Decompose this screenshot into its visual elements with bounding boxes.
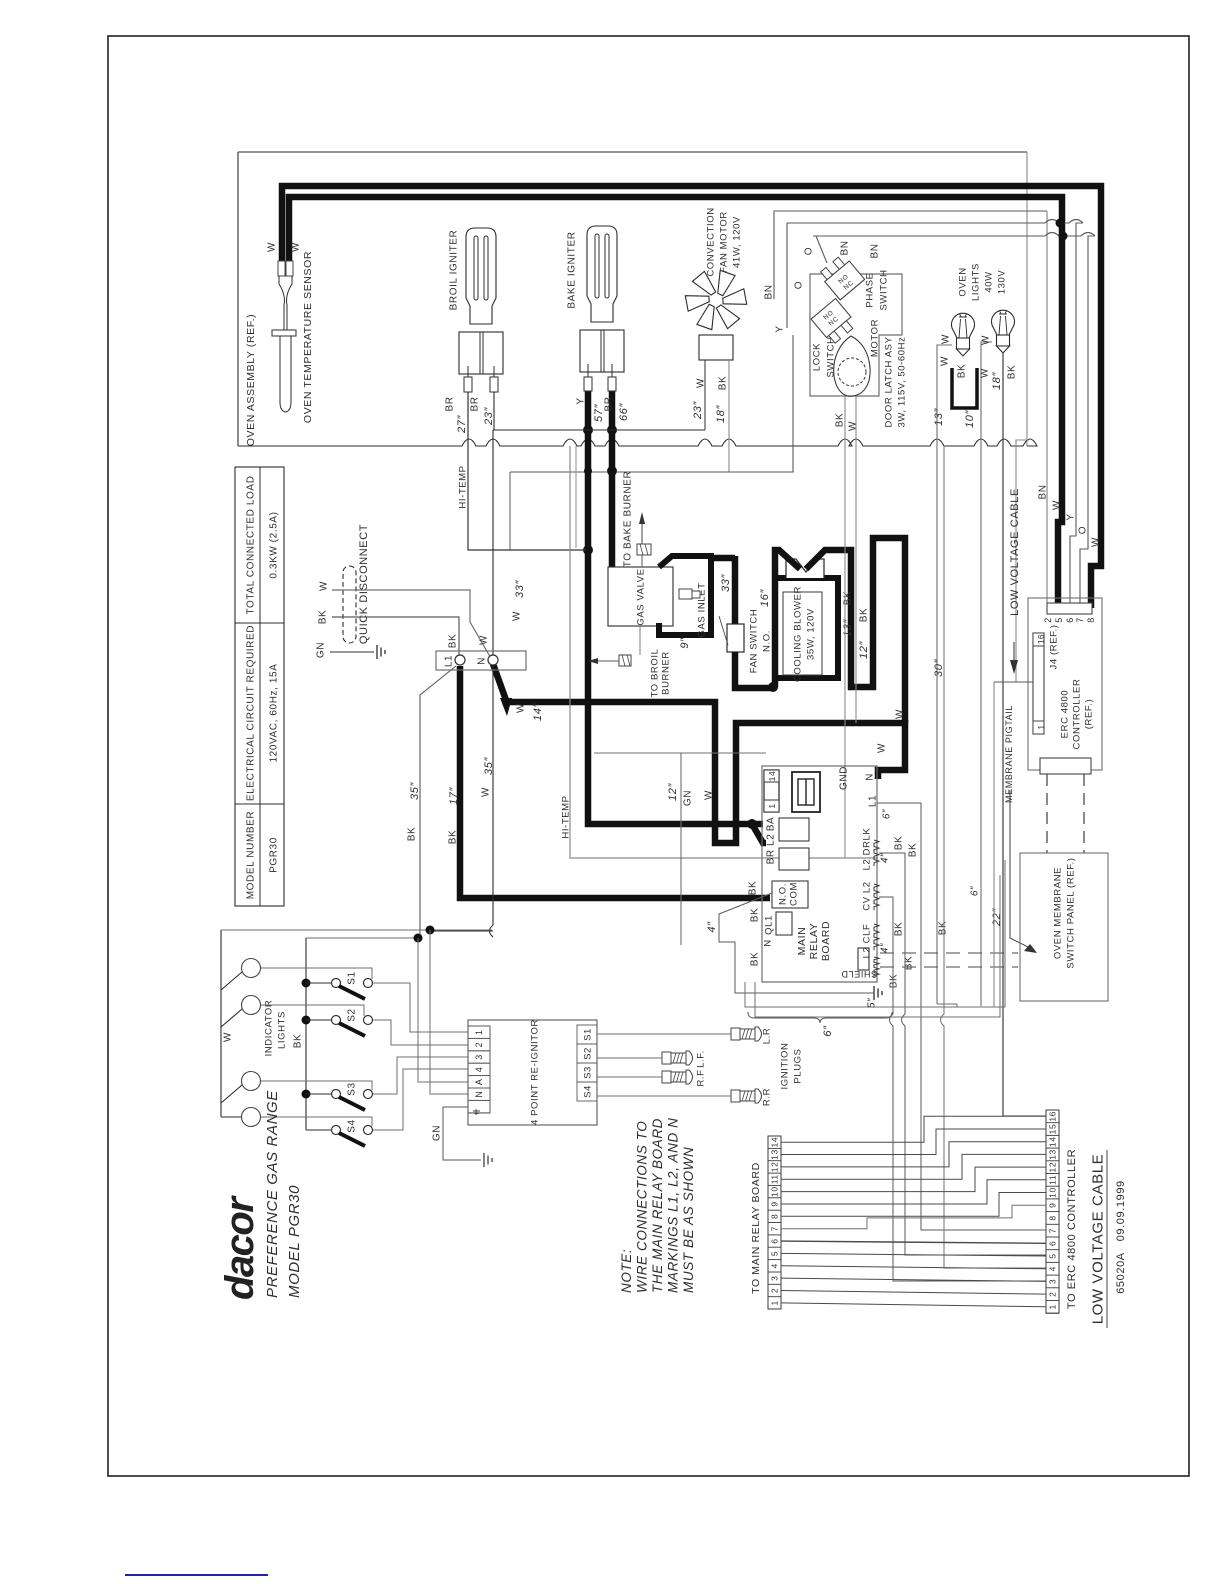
- svg-text:13″: 13″: [842, 619, 854, 637]
- svg-text:41W, 120V: 41W, 120V: [731, 216, 742, 268]
- phase switch: [818, 253, 864, 300]
- svg-text:L1: L1: [444, 655, 455, 667]
- rail y=472: [510, 471, 793, 473]
- svg-text:LIGHTS: LIGHTS: [970, 263, 981, 301]
- svg-text:dacor: dacor: [218, 1195, 262, 1300]
- svg-text:3: 3: [770, 1275, 780, 1280]
- svg-text:W: W: [512, 611, 523, 621]
- BR L2 terminal: [779, 848, 809, 870]
- svg-text:3W, 115V, 50-60Hz: 3W, 115V, 50-60Hz: [896, 336, 907, 427]
- svg-text:30″: 30″: [933, 659, 945, 677]
- svg-text:6″: 6″: [970, 886, 981, 896]
- svg-text:12″: 12″: [667, 783, 679, 801]
- svg-text:BR: BR: [445, 396, 456, 411]
- svg-text:FAN SWITCH: FAN SWITCH: [748, 609, 759, 674]
- svg-text:23″: 23″: [483, 407, 495, 426]
- svg-text:IGNITION: IGNITION: [779, 1042, 790, 1089]
- svg-text:CONTROLLER: CONTROLLER: [1071, 679, 1082, 750]
- svg-text:COM: COM: [788, 882, 799, 906]
- svg-text:7: 7: [770, 1226, 780, 1231]
- oven membrane switch panel: [1020, 853, 1108, 1001]
- ignition plug R.R: [731, 1090, 740, 1102]
- svg-text:N: N: [865, 773, 876, 781]
- svg-text:66″: 66″: [618, 403, 630, 421]
- ERC bottom connector: [1040, 758, 1091, 774]
- wire thick BR bake igniter lead to gas valve: [609, 390, 616, 567]
- svg-text:W: W: [481, 787, 492, 797]
- svg-text:BK: BK: [859, 608, 870, 623]
- switch S1: [332, 979, 341, 988]
- svg-text:5: 5: [1054, 617, 1064, 623]
- low voltage cable wires: [781, 1116, 1046, 1142]
- 4 point re-ignitor box: [468, 1020, 597, 1125]
- bulb 1: [952, 313, 975, 338]
- svg-text:BN: BN: [840, 240, 851, 255]
- svg-text:HI-TEMP: HI-TEMP: [560, 795, 571, 838]
- J4 connector: [1033, 633, 1044, 734]
- svg-text:4″: 4″: [880, 853, 891, 863]
- wire thick BR-L2 diagonal stub: [752, 824, 766, 843]
- broil igniter: [466, 228, 496, 324]
- svg-text:N: N: [477, 657, 488, 665]
- svg-text:7: 7: [1048, 1228, 1058, 1233]
- thin rail y=753: [594, 752, 766, 754]
- BK bus: [305, 938, 307, 1130]
- svg-text:2: 2: [474, 1042, 484, 1048]
- broil 27in wire: [468, 392, 586, 550]
- svg-text:18″: 18″: [991, 372, 1003, 390]
- svg-text:PLUGS: PLUGS: [792, 1048, 803, 1083]
- svg-text:PREFERENCE GAS RANGE: PREFERENCE GAS RANGE: [264, 1090, 281, 1298]
- svg-text:3: 3: [1048, 1279, 1058, 1284]
- BA terminal: [779, 818, 809, 841]
- svg-text:15: 15: [1048, 1124, 1058, 1135]
- GN wire + earth: [443, 1107, 481, 1160]
- W bus: [221, 930, 242, 1117]
- svg-text:BK: BK: [889, 974, 900, 989]
- svg-text:FAN MOTOR: FAN MOTOR: [718, 211, 729, 273]
- svg-text:6: 6: [770, 1238, 780, 1243]
- svg-text:L.F.: L.F.: [695, 1050, 706, 1068]
- lock switch: [811, 299, 857, 346]
- svg-text:1: 1: [1037, 724, 1046, 729]
- svg-text:BK: BK: [407, 827, 418, 842]
- svg-text:QL1: QL1: [763, 915, 774, 935]
- svg-text:S1: S1: [347, 971, 358, 984]
- svg-text:13: 13: [770, 1149, 780, 1160]
- svg-text:14: 14: [767, 771, 777, 782]
- junction dots on thick verticals: [583, 425, 593, 435]
- svg-text:TO BROIL: TO BROIL: [649, 649, 660, 698]
- svg-text:S4: S4: [582, 1085, 593, 1098]
- svg-text:CONVECTION: CONVECTION: [705, 207, 716, 276]
- svg-text:W: W: [516, 703, 527, 713]
- ERC top connector: [1047, 603, 1092, 614]
- svg-text:7: 7: [1075, 617, 1085, 623]
- svg-text:BK: BK: [748, 881, 759, 896]
- cooling blower: [775, 578, 838, 678]
- svg-text:5: 5: [770, 1251, 780, 1256]
- svg-text:WIRE CONNECTIONS TO: WIRE CONNECTIONS TO: [635, 1121, 650, 1293]
- long wire from bulbs: [937, 1004, 957, 1007]
- svg-text:L2 DRLK: L2 DRLK: [861, 828, 872, 871]
- svg-text:BR: BR: [470, 396, 481, 411]
- svg-text:R.F: R.F: [695, 1069, 706, 1086]
- svg-text:BK: BK: [894, 922, 905, 937]
- latch motor: [834, 336, 870, 396]
- svg-text:BN: BN: [870, 243, 881, 258]
- wire thick W outer: oven temp sensor to ERC pin (top loop): [282, 186, 1101, 608]
- svg-text:1: 1: [770, 1300, 780, 1305]
- svg-text:S3: S3: [347, 1082, 358, 1095]
- membrane pigtail dashes: [1046, 774, 1048, 853]
- svg-text:1: 1: [1048, 1304, 1058, 1309]
- svg-text:BN: BN: [1038, 484, 1049, 499]
- svg-text:33″: 33″: [720, 574, 732, 592]
- svg-text:12″: 12″: [858, 641, 870, 659]
- relay component symbol: [792, 772, 820, 812]
- svg-text:N: N: [762, 939, 773, 946]
- svg-text:N: N: [474, 1091, 484, 1098]
- hi-temp gray wire pair: [575, 446, 577, 548]
- svg-text:4: 4: [1048, 1266, 1058, 1271]
- BK 35in wire from L1 to re-ignitor A bus: [420, 666, 456, 938]
- svg-text:N.O.: N.O.: [777, 883, 788, 905]
- svg-text:QUICK DISCONNECT: QUICK DISCONNECT: [358, 524, 370, 644]
- svg-text:L2 CLF: L2 CLF: [861, 924, 872, 959]
- ground symbol: [377, 645, 385, 659]
- relay board 14-pin connector: [764, 770, 779, 812]
- svg-text:TO ERC 4800 CONTROLLER: TO ERC 4800 CONTROLLER: [1066, 1149, 1078, 1309]
- svg-text:16: 16: [1048, 1111, 1058, 1122]
- svg-text:10: 10: [770, 1186, 780, 1197]
- svg-text:S3: S3: [582, 1066, 593, 1079]
- oven temperature sensor: [278, 261, 285, 276]
- relay board right side wires: [877, 803, 1046, 1230]
- svg-text:GN: GN: [316, 642, 327, 658]
- svg-text:0.3KW (2.5A): 0.3KW (2.5A): [269, 511, 280, 578]
- svg-text:W: W: [223, 1032, 234, 1042]
- svg-text:S2: S2: [347, 1008, 358, 1021]
- svg-text:14″: 14″: [532, 703, 544, 721]
- svg-text:W: W: [895, 709, 906, 719]
- svg-text:130V: 130V: [996, 270, 1007, 295]
- svg-text:BK: BK: [318, 610, 329, 625]
- hi-temp wire rail y=430: [493, 429, 705, 431]
- svg-text:22″: 22″: [991, 908, 1003, 927]
- svg-text:9: 9: [770, 1201, 780, 1206]
- ignition plug R.F: [662, 1071, 671, 1083]
- svg-text:OVEN: OVEN: [957, 267, 968, 296]
- svg-text:23″: 23″: [692, 401, 704, 420]
- svg-text:120VAC, 60Hz, 15A: 120VAC, 60Hz, 15A: [269, 664, 280, 763]
- svg-text:2: 2: [770, 1288, 780, 1293]
- svg-text:35″: 35″: [483, 757, 495, 775]
- svg-text:L.R: L.R: [761, 1028, 772, 1045]
- svg-text:10″: 10″: [964, 410, 976, 428]
- svg-text:W: W: [1091, 537, 1102, 547]
- svg-text:BK: BK: [448, 634, 459, 649]
- svg-text:S2: S2: [582, 1047, 593, 1060]
- svg-text:Y: Y: [576, 397, 587, 404]
- svg-text:GAS VALVE: GAS VALVE: [635, 568, 646, 625]
- svg-text:MODEL PGR30: MODEL PGR30: [286, 1185, 303, 1298]
- svg-text:8: 8: [770, 1214, 780, 1219]
- door latch assembly box: [810, 274, 902, 396]
- svg-text:PHASE: PHASE: [864, 272, 875, 307]
- svg-text:ERC 4800: ERC 4800: [1059, 690, 1070, 739]
- gas inlet box (thick border): [659, 556, 711, 635]
- svg-text:O: O: [1078, 526, 1089, 534]
- svg-text:TOTAL CONNECTED LOAD: TOTAL CONNECTED LOAD: [246, 475, 257, 614]
- svg-text:GN: GN: [683, 790, 694, 806]
- svg-text:LOW VOLTAGE CABLE: LOW VOLTAGE CABLE: [1089, 1154, 1106, 1325]
- indicator lamp 3: [242, 1072, 261, 1091]
- svg-text:BURNER: BURNER: [660, 651, 671, 695]
- gas valve igniter electrode symbol: [637, 544, 651, 555]
- svg-text:O: O: [794, 281, 805, 289]
- svg-text:8: 8: [1086, 617, 1096, 623]
- vertical 510: [509, 472, 511, 550]
- bake igniter: [587, 226, 617, 322]
- svg-text:J4 (REF.): J4 (REF.): [1048, 625, 1059, 670]
- svg-text:RELAY: RELAY: [808, 923, 820, 960]
- svg-text:12: 12: [1048, 1162, 1058, 1173]
- switch S4: [332, 1126, 341, 1135]
- svg-text:9: 9: [1048, 1203, 1058, 1208]
- svg-text:33″: 33″: [514, 580, 526, 598]
- svg-text:4: 4: [770, 1263, 780, 1268]
- oven assembly boundary box: [237, 152, 239, 446]
- svg-text:O: O: [804, 247, 815, 255]
- wire thick W inner: oven temp sensor to ERC (top loop): [289, 197, 1062, 608]
- svg-text:SHIELD: SHIELD: [841, 969, 877, 979]
- blower wire BK 13in loop: [806, 538, 905, 723]
- svg-text:THE MAIN RELAY BOARD: THE MAIN RELAY BOARD: [650, 1118, 665, 1293]
- QL1: [776, 912, 792, 935]
- svg-text:L1: L1: [868, 795, 879, 807]
- blower wire W to fan switch junction: [775, 550, 800, 687]
- svg-text:3: 3: [474, 1054, 484, 1060]
- svg-text:4″: 4″: [706, 921, 718, 933]
- ignition plug L.F.: [662, 1052, 671, 1064]
- GN wire from blower area to relay board: [680, 753, 682, 945]
- svg-text:Y: Y: [1066, 513, 1077, 520]
- svg-text:W: W: [877, 743, 888, 753]
- switch S3: [332, 1090, 341, 1099]
- wire NO to N route: [719, 893, 872, 993]
- svg-text:Y: Y: [775, 325, 786, 332]
- bulb wires: [937, 345, 952, 1004]
- svg-text:4″: 4″: [880, 943, 891, 953]
- svg-text:LIGHTS: LIGHTS: [276, 1011, 287, 1049]
- svg-text:2: 2: [1043, 617, 1053, 623]
- svg-text:BK: BK: [957, 364, 968, 379]
- wire corner x1016: [1016, 440, 1029, 682]
- BK wire through disconnect: [332, 617, 459, 655]
- svg-text:R.R: R.R: [761, 1088, 772, 1106]
- svg-text:BOARD: BOARD: [820, 921, 832, 961]
- svg-text:1: 1: [767, 803, 777, 808]
- svg-text:SWITCH PANEL (REF.): SWITCH PANEL (REF.): [1065, 857, 1076, 968]
- wire thick W from N terminal: long route to relay board N: [493, 664, 905, 843]
- svg-text:W: W: [848, 421, 859, 431]
- svg-text:MODEL NUMBER: MODEL NUMBER: [246, 811, 257, 900]
- svg-text:BK: BK: [894, 836, 905, 851]
- svg-text:4: 4: [474, 1067, 484, 1073]
- svg-text:W: W: [704, 790, 715, 800]
- svg-text:N.O.: N.O.: [761, 630, 772, 652]
- svg-text:W: W: [981, 335, 992, 345]
- switch output wires to re-ignitor: [373, 983, 468, 1032]
- svg-text:BK: BK: [750, 952, 761, 967]
- svg-text:BK: BK: [835, 413, 846, 428]
- svg-text:(REF.): (REF.): [1083, 699, 1094, 730]
- svg-text:ELECTRICAL CIRCUIT REQUIRED: ELECTRICAL CIRCUIT REQUIRED: [246, 625, 257, 801]
- svg-text:S1: S1: [582, 1028, 593, 1041]
- svg-text:5: 5: [1048, 1253, 1058, 1258]
- svg-text:16: 16: [1037, 634, 1046, 644]
- svg-text:INDICATOR: INDICATOR: [263, 1000, 274, 1057]
- svg-text:65020A 09.09.1999: 65020A 09.09.1999: [1115, 1180, 1127, 1294]
- svg-text:14: 14: [1048, 1136, 1058, 1147]
- wires below relay board: [745, 860, 1005, 1007]
- svg-text:BK: BK: [843, 591, 854, 606]
- svg-text:PGR30: PGR30: [269, 837, 280, 873]
- bulb 2: [992, 310, 1015, 335]
- svg-text:SWITCH: SWITCH: [878, 269, 889, 310]
- indicator lamp 4: [242, 1108, 261, 1127]
- svg-text:16″: 16″: [759, 589, 771, 607]
- svg-text:13: 13: [1048, 1149, 1058, 1160]
- A and N feed wires: [418, 938, 468, 1082]
- svg-text:W: W: [980, 368, 991, 378]
- quick disconnect: [343, 566, 356, 643]
- N.O. COM terminal box: [772, 881, 808, 908]
- svg-text:12: 12: [770, 1162, 780, 1173]
- to ERC 4800 controller strip: [1046, 1110, 1059, 1313]
- svg-text:4 POINT RE-IGNITOR: 4 POINT RE-IGNITOR: [529, 1019, 540, 1125]
- svg-text:6″: 6″: [882, 809, 893, 819]
- svg-text:BN: BN: [764, 284, 775, 299]
- svg-text:BA: BA: [766, 817, 777, 832]
- svg-text:GND: GND: [839, 766, 850, 790]
- svg-text:COOLING BLOWER: COOLING BLOWER: [792, 586, 803, 682]
- svg-text:LOW VOLTAGE CABLE: LOW VOLTAGE CABLE: [1009, 488, 1021, 616]
- svg-text:W: W: [291, 242, 302, 252]
- blower motor notch symbol: [786, 559, 824, 578]
- svg-text:10: 10: [1048, 1187, 1058, 1198]
- svg-text:BK: BK: [908, 843, 919, 858]
- door latch wires to top rail: [774, 211, 1047, 299]
- to bake burner arrow: [641, 524, 643, 544]
- svg-text:OVEN MEMBRANE: OVEN MEMBRANE: [1052, 867, 1063, 959]
- svg-text:MEMBRANE PIGTAIL: MEMBRANE PIGTAIL: [1004, 705, 1014, 803]
- svg-text:BK: BK: [938, 921, 949, 936]
- to main relay board strip: [768, 1136, 781, 1309]
- to broil burner electrode: [619, 655, 631, 666]
- svg-text:MOTOR: MOTOR: [869, 319, 880, 357]
- svg-text:MUST BE AS SHOWN: MUST BE AS SHOWN: [681, 1147, 696, 1293]
- svg-text:40W: 40W: [983, 271, 994, 292]
- svg-text:18″: 18″: [715, 405, 727, 423]
- terminal block L1 / N: [436, 651, 526, 670]
- svg-text:BR: BR: [604, 396, 615, 411]
- svg-text:11: 11: [1048, 1175, 1058, 1185]
- svg-text:MARKINGS L1, L2, AND N: MARKINGS L1, L2, AND N: [666, 1118, 681, 1294]
- svg-text:35W, 120V: 35W, 120V: [805, 608, 816, 660]
- svg-text:W: W: [940, 356, 951, 366]
- svg-text:35″: 35″: [409, 782, 421, 800]
- svg-text:OVEN ASSEMBLY (REF.): OVEN ASSEMBLY (REF.): [245, 314, 257, 446]
- svg-text:W: W: [267, 242, 278, 252]
- broil 23in / W33 wire: [431, 392, 494, 937]
- svg-text:17″: 17″: [448, 787, 460, 805]
- W wire through disconnect: [332, 590, 492, 660]
- wire thick Y bake igniter lead down to main relay board BA: [588, 390, 763, 824]
- svg-text:8: 8: [1048, 1215, 1058, 1220]
- svg-text:2: 2: [1048, 1291, 1058, 1296]
- svg-text:OVEN TEMPERATURE SENSOR: OVEN TEMPERATURE SENSOR: [302, 251, 314, 423]
- shield bar: [858, 948, 869, 970]
- svg-text:BROIL IGNITER: BROIL IGNITER: [449, 230, 460, 311]
- svg-text:TO MAIN RELAY BOARD: TO MAIN RELAY BOARD: [750, 1162, 762, 1294]
- ignition plug L.R: [731, 1028, 740, 1040]
- main relay board: [762, 766, 877, 982]
- svg-text:A: A: [474, 1078, 484, 1085]
- svg-text:BK: BK: [293, 1034, 304, 1049]
- membrane pigtail dashed: [880, 952, 1018, 954]
- svg-text:W: W: [479, 635, 490, 645]
- ground at shield: [874, 986, 882, 1000]
- top-right wire rail breaks into verticals: [1046, 211, 1048, 603]
- svg-text:BAKE IGNITER: BAKE IGNITER: [567, 231, 578, 308]
- svg-text:W: W: [696, 378, 707, 388]
- svg-text:BR L2: BR L2: [766, 834, 777, 865]
- svg-text:W: W: [319, 581, 330, 591]
- svg-text:TO BAKE BURNER: TO BAKE BURNER: [623, 471, 634, 568]
- wire thick BK from L1 terminal to N.O. COM: [460, 666, 770, 898]
- svg-text:BK: BK: [750, 908, 761, 923]
- ERC 4800 controller box: [1028, 598, 1102, 770]
- gas valve box: [608, 567, 673, 626]
- svg-text:6″: 6″: [822, 1025, 834, 1037]
- svg-text:BK: BK: [1007, 365, 1018, 380]
- footer link line: [125, 1574, 268, 1576]
- svg-text:NOTE:: NOTE:: [619, 1249, 634, 1293]
- svg-text:S4: S4: [347, 1119, 358, 1132]
- svg-text:9″: 9″: [679, 637, 691, 649]
- indicator lamp 2: [242, 996, 261, 1015]
- svg-text:LOCK: LOCK: [811, 343, 822, 371]
- door latch BK/W wires down: [844, 396, 846, 858]
- dimension brace 6in: [748, 1012, 892, 1023]
- svg-text:1: 1: [474, 1029, 484, 1035]
- svg-text:11: 11: [770, 1174, 780, 1184]
- svg-text:27″: 27″: [456, 415, 468, 434]
- svg-text:GN: GN: [432, 1125, 443, 1141]
- GN wire to ground: [330, 651, 374, 653]
- indicator lamp 1: [242, 959, 261, 978]
- fan switch: [732, 556, 739, 624]
- svg-text:HI-TEMP: HI-TEMP: [457, 465, 468, 508]
- spec table: [235, 467, 284, 906]
- door latch Y wire down to 472 rail: [588, 335, 793, 472]
- svg-text:W: W: [941, 334, 952, 344]
- svg-text:6: 6: [1048, 1241, 1058, 1246]
- svg-text:BK: BK: [718, 376, 729, 391]
- svg-text:14: 14: [770, 1137, 780, 1148]
